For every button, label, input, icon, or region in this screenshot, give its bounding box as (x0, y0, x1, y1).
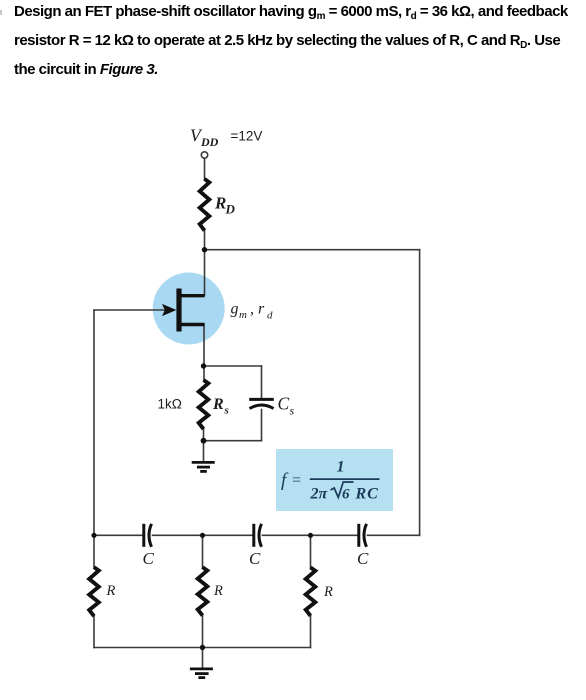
svg-text:6: 6 (342, 487, 350, 503)
svg-text:d: d (267, 310, 273, 322)
svg-text:C: C (249, 549, 261, 568)
svg-text:, r: , r (250, 301, 265, 318)
svg-text:R: R (214, 194, 226, 213)
svg-text:s: s (290, 404, 295, 418)
svg-text:RC: RC (355, 486, 379, 503)
svg-text:C: C (278, 394, 290, 414)
svg-text:=: = (291, 472, 302, 489)
svg-text:g: g (231, 301, 239, 318)
svg-text:R: R (106, 583, 116, 599)
svg-text:D: D (225, 202, 236, 217)
svg-text:1: 1 (337, 459, 345, 476)
svg-text:m: m (239, 309, 247, 321)
svg-text:R: R (212, 396, 224, 413)
svg-text:s: s (224, 405, 229, 417)
svg-text:R: R (323, 584, 333, 600)
svg-text:C: C (357, 549, 369, 568)
svg-text:2π: 2π (310, 486, 329, 503)
svg-text:=12V: =12V (231, 129, 263, 144)
svg-text:DD: DD (200, 135, 219, 149)
svg-text:C: C (143, 549, 155, 568)
svg-text:1kΩ: 1kΩ (158, 397, 182, 412)
svg-text:R: R (213, 583, 223, 599)
